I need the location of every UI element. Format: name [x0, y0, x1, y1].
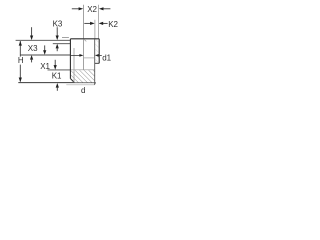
- dimension d1 leader right: [99, 54, 102, 56]
- arrow to line L5 (K1 upper reference): [54, 60, 56, 67]
- reference line L3: [20, 54, 70, 56]
- dimension K1 arrow bottom: [56, 83, 59, 88]
- dimension K1 tail bottom: [56, 87, 58, 91]
- svg-text:d1: d1: [102, 54, 111, 63]
- dimension d1 arrow left: [79, 54, 83, 57]
- part bottom face extension (faint): [66, 84, 95, 86]
- dimension H arrow bottom: [19, 78, 22, 83]
- dimension X2 leader right: [103, 8, 110, 10]
- part bottom-left chamfer: [71, 79, 75, 83]
- socket lead-in chamfer left: [84, 39, 87, 41]
- part: right wall hatch: [95, 39, 98, 62]
- dimension X2 arrow left: [79, 7, 84, 10]
- part right step ledge: [95, 62, 100, 64]
- dimension X3 arrow bottom: [30, 55, 33, 60]
- extension line X2/K2-right: [98, 5, 100, 39]
- extension line K2-left: [94, 20, 96, 39]
- svg-text:K1: K1: [52, 71, 62, 80]
- dimension K3 leader down: [56, 27, 58, 37]
- reference line L5: [48, 69, 71, 71]
- svg-text:X3: X3: [28, 44, 38, 53]
- part left outer edge: [69, 39, 71, 79]
- svg-text:H: H: [18, 56, 24, 65]
- dimension K2 arrow left: [90, 22, 95, 25]
- part bottom-right corner chamfer: [94, 83, 95, 85]
- dimension X2 arrow right: [99, 7, 104, 10]
- svg-text:d: d: [81, 86, 85, 95]
- svg-text:X2: X2: [87, 5, 97, 14]
- dimension K3 arrow top: [56, 36, 59, 41]
- dimension K2 leader right: [103, 22, 108, 24]
- dimension X3 arrow top: [30, 36, 33, 41]
- arrow to line L3 (X1 upper reference): [44, 45, 46, 51]
- part inner left bore wall: [73, 48, 75, 83]
- dimension d1 arrow right: [95, 54, 99, 57]
- dimension d1 leader left: [71, 54, 81, 56]
- reference line L6 / part bottom: [18, 82, 95, 84]
- svg-text:K2: K2: [108, 20, 118, 29]
- dimension X3 leader top: [31, 27, 33, 37]
- dimension K3 tail bottom: [56, 47, 58, 51]
- part right lower edge: [94, 39, 96, 85]
- reference line L1: [16, 39, 71, 41]
- svg-text:K3: K3: [53, 19, 63, 28]
- reference line L5 inside part: [70, 69, 94, 71]
- dimension X3 tail bottom: [31, 59, 33, 63]
- dimension X2 leader left: [72, 8, 80, 10]
- top face stub extension left: [62, 36, 69, 38]
- dimension H arrow top: [19, 41, 22, 46]
- part: hatched insertion band bottom: [71, 70, 95, 82]
- dimension K3 arrow bottom: [56, 44, 59, 49]
- dimension K2 arrow right: [99, 22, 104, 25]
- reference line L2: [53, 43, 71, 45]
- part right outer edge: [98, 39, 100, 64]
- part top face: [70, 38, 99, 40]
- dimension H line upper: [19, 41, 21, 57]
- dimension H line lower: [19, 65, 21, 82]
- dimension K2 leader left: [84, 22, 91, 24]
- part internal shoulder: [84, 57, 95, 59]
- extension line X2-left (upper bore left wall, continues into part): [83, 5, 85, 70]
